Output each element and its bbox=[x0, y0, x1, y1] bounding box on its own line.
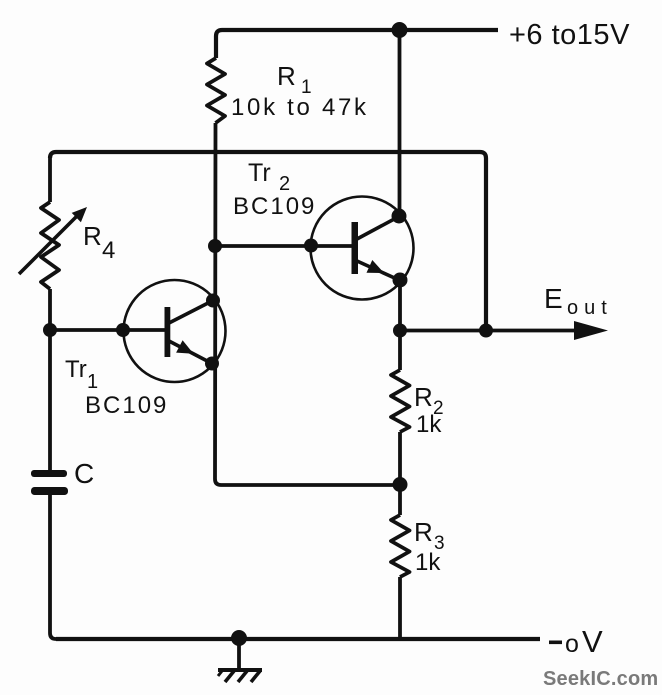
node: Tr2 base tap on R1 line bbox=[208, 239, 222, 253]
svg-text:BC109: BC109 bbox=[85, 392, 168, 419]
node: ground junction on bottom rail bbox=[231, 630, 247, 646]
wire: R3 bottom to bottom rail bbox=[398, 577, 402, 639]
svg-text:R: R bbox=[83, 221, 102, 251]
wire: ground stem bbox=[237, 639, 241, 669]
node: Eout junction left bbox=[393, 324, 407, 338]
svg-text:+6 to15V: +6 to15V bbox=[509, 19, 630, 51]
R4 adjustment arrow head bbox=[72, 207, 87, 222]
node: top rail junction bbox=[392, 22, 408, 38]
transistor Q1 Tr1 base bar bbox=[165, 307, 171, 357]
wire: Tr2 base wire bbox=[215, 244, 353, 248]
node: Tr2 collector bbox=[392, 209, 407, 224]
resistor R2 bbox=[391, 370, 410, 432]
svg-text:BC109: BC109 bbox=[233, 193, 316, 220]
wire: between R2 and R3 bbox=[398, 432, 402, 515]
wire: Tr2 collector vertical from top rail bbox=[398, 30, 402, 216]
svg-text:10k to 47k: 10k to 47k bbox=[231, 94, 369, 121]
svg-text:R: R bbox=[277, 61, 296, 91]
wire: second rail with right corner down to Eout line bbox=[50, 152, 486, 330]
node: Eout junction right bbox=[479, 324, 493, 338]
svg-text:out: out bbox=[567, 297, 613, 319]
label: -0V bbox=[549, 641, 562, 645]
svg-text:V: V bbox=[582, 624, 603, 659]
node: Tr1 collector bbox=[206, 294, 220, 308]
transistor Q2 Tr2 emitter lead bbox=[357, 261, 399, 280]
svg-text:Tr: Tr bbox=[65, 356, 87, 383]
transistor Q2 Tr2 base bar bbox=[352, 222, 359, 274]
wire: left vertical from capacitor to bottom rail corner bbox=[50, 495, 56, 639]
node: Tr2 base on circle bbox=[304, 239, 318, 253]
svg-text:2: 2 bbox=[279, 173, 290, 195]
capacitor C bottom plate bbox=[31, 487, 68, 495]
svg-text:o: o bbox=[565, 630, 579, 658]
svg-text:1: 1 bbox=[87, 371, 98, 393]
node: Tr1 emitter bbox=[205, 357, 219, 371]
svg-text:1k: 1k bbox=[415, 549, 441, 576]
transistor Q1 Tr1 collector lead bbox=[169, 301, 212, 323]
wire: bottom rail bbox=[56, 637, 540, 641]
transistor Q1 Tr1 emitter lead bbox=[169, 341, 211, 363]
svg-text:C: C bbox=[74, 458, 94, 489]
R4 adjustment arrow shaft bbox=[19, 213, 80, 274]
transistor Q2 Tr2 emitter arrow bbox=[367, 260, 385, 273]
svg-text:4: 4 bbox=[102, 237, 115, 264]
wire: Tr2 emitter vertical down to R2 bbox=[398, 280, 402, 370]
wire: top supply rail bbox=[216, 30, 498, 58]
wire: Tr1 base wire bbox=[50, 328, 166, 332]
node: left vertical junction bbox=[43, 323, 57, 337]
wire: left vertical from R4 to capacitor bbox=[48, 289, 52, 470]
node: R2/R3 junction bbox=[393, 477, 408, 492]
node: Tr2 emitter bbox=[393, 273, 408, 288]
svg-text:1k: 1k bbox=[416, 411, 442, 438]
svg-text:R: R bbox=[414, 382, 433, 412]
capacitor C top plate bbox=[31, 470, 67, 477]
transistor Q2 Tr2 circle bbox=[311, 197, 414, 300]
svg-text:E: E bbox=[544, 283, 563, 314]
wire: R1 bottom vertical down to corner then right to R2/R3 junction bbox=[215, 123, 400, 485]
transistor Q1 Tr1 circle bbox=[124, 280, 226, 382]
svg-text:SeekIC.com: SeekIC.com bbox=[543, 668, 658, 690]
resistor R3 bbox=[391, 515, 410, 577]
resistor R1 bbox=[207, 58, 225, 123]
ground symbol bbox=[218, 670, 262, 682]
wire: left vertical upper lead to R4 bbox=[48, 156, 52, 202]
wire: Eout output line bbox=[400, 329, 578, 333]
transistor Q1 Tr1 emitter arrow bbox=[176, 340, 193, 354]
transistor Q2 Tr2 collector lead bbox=[357, 217, 398, 239]
resistor R4 (variable) bbox=[41, 202, 59, 289]
node: Tr1 base on circle bbox=[116, 323, 130, 337]
Eout arrow head bbox=[574, 321, 608, 340]
svg-text:R: R bbox=[414, 517, 433, 547]
svg-text:Tr: Tr bbox=[248, 159, 271, 187]
